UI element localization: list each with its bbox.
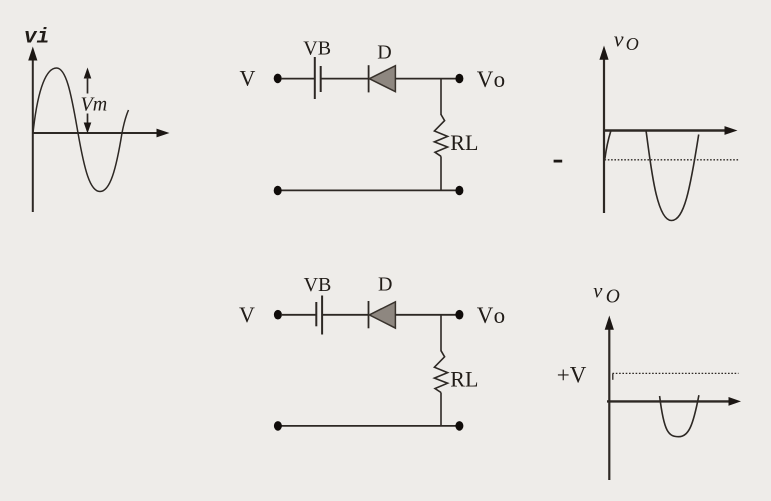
svg-text:V: V bbox=[240, 66, 256, 91]
svg-text:RL: RL bbox=[450, 366, 478, 391]
svg-text:D: D bbox=[378, 273, 392, 295]
svg-text:D: D bbox=[377, 41, 391, 63]
svg-text:Vo: Vo bbox=[477, 303, 505, 328]
svg-text:VB: VB bbox=[304, 274, 332, 296]
svg-text:RL: RL bbox=[450, 130, 478, 155]
svg-text:vi: vi bbox=[24, 27, 49, 50]
svg-text:Vm: Vm bbox=[81, 94, 108, 116]
svg-text:+V: +V bbox=[557, 363, 587, 388]
svg-text:V: V bbox=[239, 302, 255, 327]
svg-text:Vo: Vo bbox=[477, 67, 505, 92]
svg-text:VB: VB bbox=[303, 37, 331, 59]
